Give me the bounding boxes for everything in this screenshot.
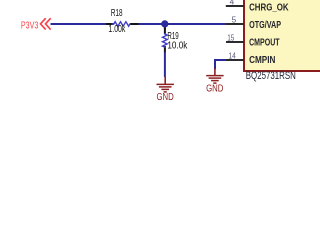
pin name CMPOUT	[249, 38, 280, 49]
svg-text:R18: R18	[111, 8, 123, 19]
pin 4 stub	[226, 0, 244, 7]
wire R19 to GND	[164, 52, 166, 77]
svg-text:BQ25731RSN: BQ25731RSN	[246, 70, 296, 82]
pin name OTG/VAP	[249, 20, 281, 31]
resistor R19	[163, 28, 188, 53]
ground GND (below R19)	[157, 77, 174, 104]
svg-text:5: 5	[232, 15, 237, 24]
svg-text:GND: GND	[206, 84, 223, 95]
wire P3V3 to R18	[51, 23, 107, 25]
svg-text:4: 4	[230, 0, 235, 7]
pin 5 stub	[226, 15, 244, 24]
wire junction down to R19	[164, 24, 166, 29]
junction node	[161, 20, 168, 27]
ground GND (at CMPIN)	[206, 68, 224, 94]
IC U1 BQ25731RSN body	[244, 0, 320, 71]
power port P3V3	[21, 18, 51, 31]
svg-text:CHRG_OK: CHRG_OK	[249, 3, 289, 14]
svg-text:1.00k: 1.00k	[108, 24, 125, 35]
svg-text:CMPIN: CMPIN	[249, 55, 275, 66]
wire pin 14 to GND	[215, 60, 228, 69]
pin name CMPIN	[249, 55, 275, 66]
svg-text:10.0k: 10.0k	[167, 41, 187, 52]
svg-text:14: 14	[229, 51, 237, 60]
wire R18 to junction to pin 5	[139, 23, 230, 25]
pin name CHRG_OK	[249, 3, 289, 14]
svg-text:P3V3: P3V3	[21, 21, 39, 32]
svg-text:CMPOUT: CMPOUT	[249, 38, 280, 49]
part value BQ25731RSN	[246, 70, 296, 82]
pin 15 stub	[226, 33, 244, 42]
pin 14 stub	[226, 51, 244, 60]
svg-text:15: 15	[227, 33, 235, 42]
svg-text:OTG/VAP: OTG/VAP	[249, 20, 281, 31]
svg-text:GND: GND	[157, 92, 174, 103]
resistor R18	[106, 8, 139, 35]
